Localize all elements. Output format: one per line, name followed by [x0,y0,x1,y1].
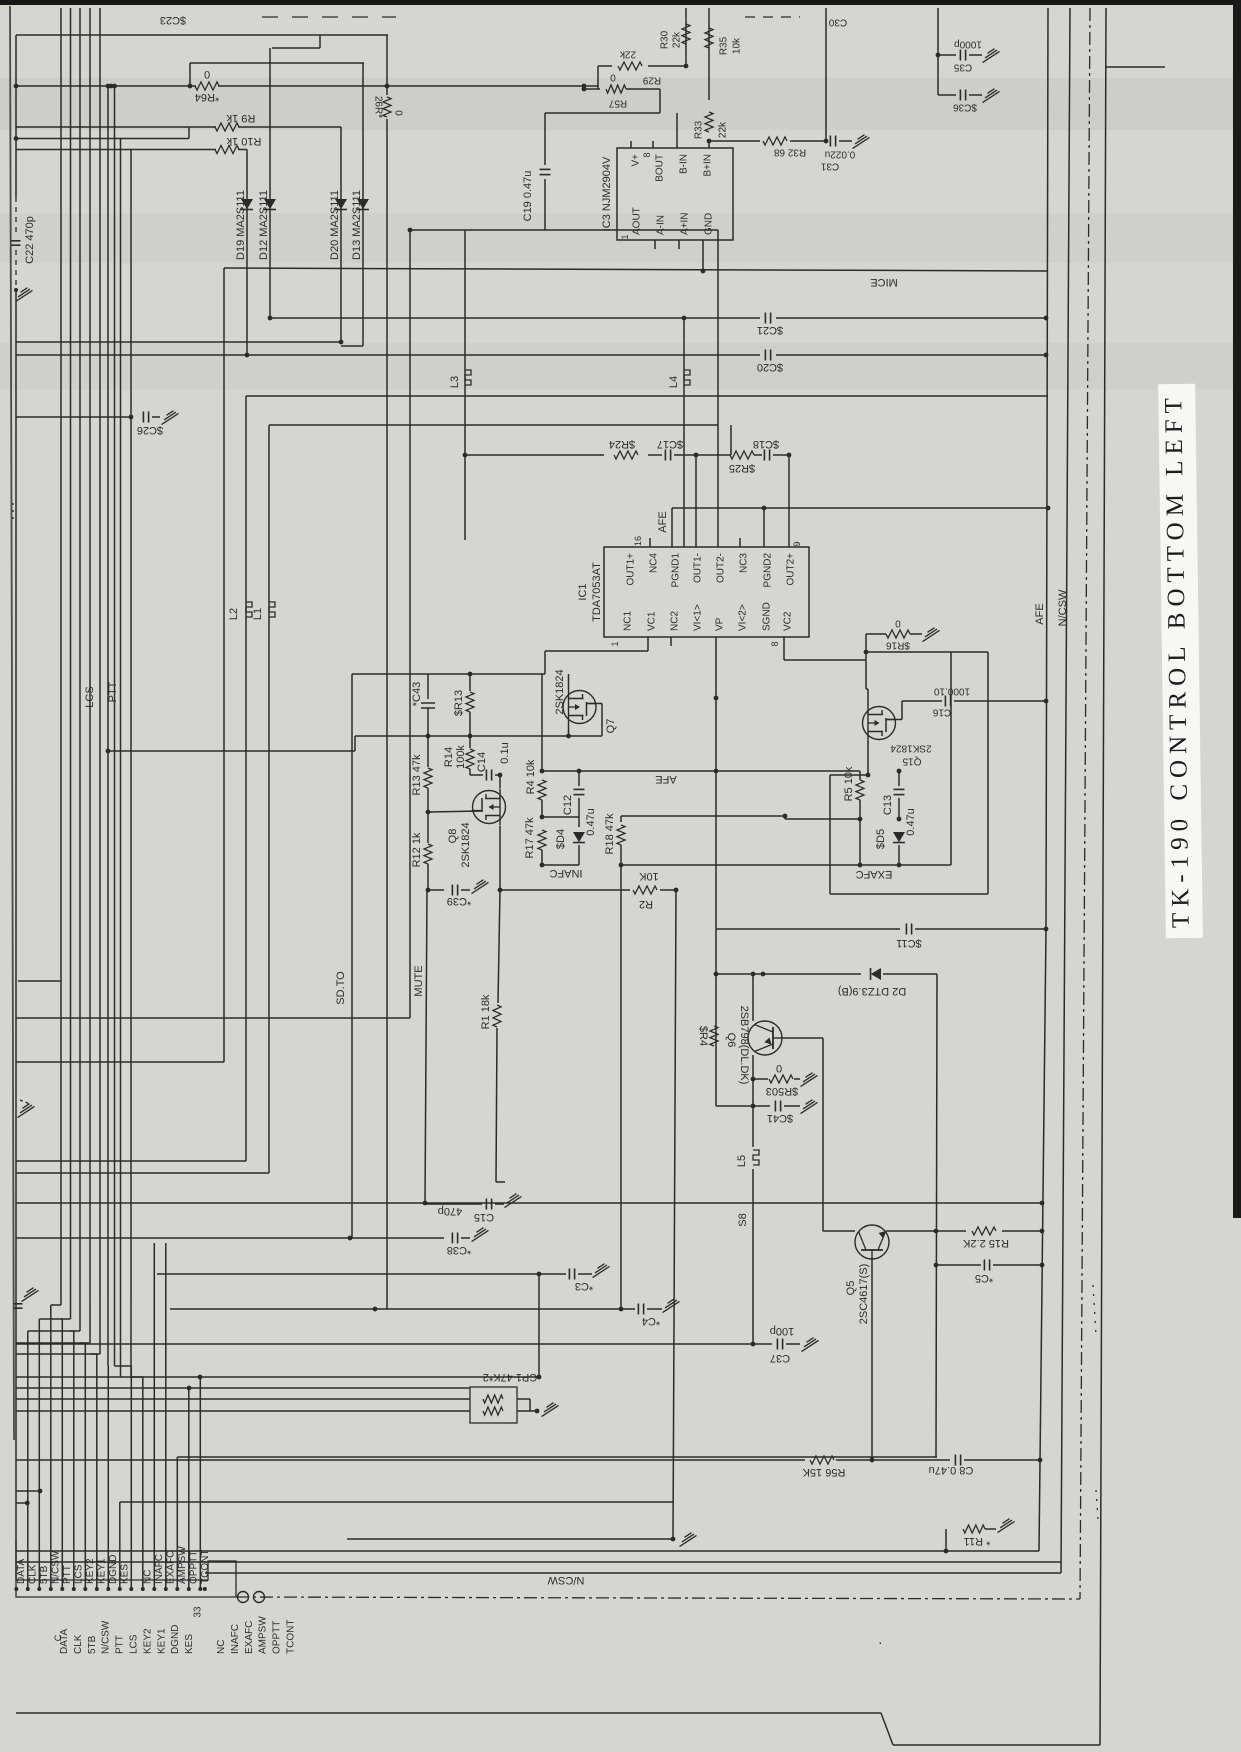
resistor R12 [411,832,432,867]
wire jog [51,1304,61,1306]
wire bus [99,8,101,1300]
node [582,87,587,92]
wire [108,750,355,752]
svg-text:DGND: DGND [170,1625,181,1654]
ground [983,89,1000,103]
transistor Q8 2SK1824 [472,789,506,826]
wire jog [79,1300,81,1331]
resistor R503 [766,1062,798,1097]
wire jog [107,1300,109,1366]
wire [16,1387,470,1389]
wire [659,89,661,113]
wire [753,1105,770,1107]
resistor R57 [606,72,627,109]
svg-text:$C20: $C20 [757,361,783,373]
wire riser DGND [107,1366,109,1589]
pin VC1 [647,611,658,631]
pin NC1 [623,611,634,631]
wire [716,973,861,975]
label legend TCONT [286,1620,297,1654]
svg-text:0.022u: 0.022u [825,149,856,160]
pin stub [708,141,710,148]
node [934,1229,939,1234]
wire jog [130,1300,132,1377]
wire jog [131,1376,143,1378]
wire [469,712,471,736]
wire [544,179,546,230]
wire [499,775,501,788]
node [385,84,390,89]
wire [579,770,860,772]
wire [987,652,989,894]
transistor Q6 2SB798 [748,1021,783,1055]
svg-text:5TB: 5TB [87,1635,98,1654]
wire [620,845,622,865]
svg-text:L2: L2 [228,608,240,620]
svg-text:9: 9 [792,541,802,546]
wire [246,150,248,356]
svg-text:R29: R29 [642,75,661,86]
pin LCS [72,1587,76,1591]
black scan edge right [1233,0,1241,1218]
wire [786,1343,800,1345]
node [1040,1263,1045,1268]
capacitor C37 [770,1325,794,1364]
wire [224,268,1048,271]
svg-text:R33: R33 [694,120,705,139]
wire [985,1528,996,1530]
wire [671,508,673,547]
svg-text:1: 1 [620,234,630,239]
svg-text:CLK: CLK [27,1564,38,1584]
pin V+ [631,154,642,167]
wire [883,973,937,975]
svg-text:MICE: MICE [870,276,898,288]
svg-text:R57: R57 [608,98,627,109]
wire [1039,929,1046,1551]
svg-text:SGND: SGND [762,602,773,631]
svg-text:8: 8 [770,641,780,646]
node [674,888,679,893]
svg-text:IC3 NJM2904V: IC3 NJM2904V [601,156,613,231]
node [1044,927,1049,932]
pin DGND [106,1587,110,1591]
wire [915,928,1046,930]
svg-text:2SC4617(S): 2SC4617(S) [858,1264,870,1325]
label DGND [108,1555,119,1584]
pin 9 [792,541,802,546]
wire [16,126,216,128]
label legend DGND [170,1625,181,1654]
wire [569,735,603,737]
svg-text:C15: C15 [474,1211,494,1223]
ground [853,135,870,149]
node [707,139,712,144]
svg-text:OUT1-: OUT1- [693,553,704,583]
wire [866,688,868,690]
wire [660,889,676,891]
scanner band [0,78,1241,130]
svg-text:$D5: $D5 [875,829,887,849]
wire [246,395,1048,397]
svg-text:MUTE: MUTE [413,965,425,996]
svg-text:$R4: $R4 [697,1026,709,1046]
ground [593,1264,610,1278]
svg-text:KEY2: KEY2 [142,1628,153,1654]
svg-text:100k: 100k [455,745,467,769]
resistor R33 [694,112,729,139]
svg-text:DGND: DGND [108,1555,119,1584]
label KES [119,1564,130,1584]
svg-text:1000p: 1000p [954,39,982,50]
wire [425,890,427,1203]
wire [496,1028,497,1182]
wire [783,1037,823,1039]
svg-text:$C26: $C26 [137,424,163,436]
wire riser AMPSW [176,1457,178,1589]
pin 5TB [37,1587,41,1591]
ground [923,628,940,642]
svg-text:R56 15K: R56 15K [802,1466,845,1478]
wire [715,637,717,1106]
node [671,1537,676,1542]
label legend DATA [59,1628,70,1654]
capacitor C36 [953,90,977,113]
node [14,136,19,141]
node [198,1375,203,1380]
wire [752,974,754,1021]
pin VI<1> [693,604,704,631]
black scan edge top [0,0,1241,5]
inductor L3 [449,370,471,388]
resistor R4 [525,759,546,800]
node [582,84,587,89]
wire [859,771,861,780]
svg-text:C35: C35 [953,62,972,73]
label legend INAFC [230,1624,241,1654]
svg-text:5TB: 5TB [39,1565,50,1584]
label TCONT [200,1550,211,1584]
node [714,696,719,701]
wire [469,736,471,748]
svg-text:V+: V+ [631,154,642,167]
node [537,1375,542,1380]
svg-text:0: 0 [895,618,901,629]
wire riser OPPTT [188,1388,190,1589]
pin 16 [633,536,643,546]
wire [268,425,270,1173]
svg-text:L5: L5 [736,1155,748,1167]
svg-text:KES: KES [184,1634,195,1654]
node [787,453,792,458]
svg-text:Q8: Q8 [447,829,459,844]
wire [428,811,482,812]
resistor R25 [729,451,755,474]
node [714,769,719,774]
svg-text:R17 47k: R17 47k [524,817,536,858]
wire [427,736,429,767]
node [751,1342,756,1347]
svg-text:2SK1824: 2SK1824 [460,822,472,867]
wire riser TCONT [199,1377,201,1589]
node [751,1104,756,1109]
capacitor C3 [569,1269,593,1293]
pin PGND1 [671,553,682,588]
wire [386,35,388,95]
wire [16,1459,805,1461]
ground [542,1403,559,1417]
svg-text:$R13: $R13 [453,690,465,716]
wire [839,140,852,142]
svg-text:B-IN: B-IN [679,154,690,174]
svg-text:C8 0.47u: C8 0.47u [929,1464,974,1476]
wire [673,890,676,1539]
inductor L1 [252,602,275,620]
wire [648,454,662,456]
wire [937,8,939,95]
node [468,672,473,677]
svg-text:KEY2: KEY2 [85,1558,96,1584]
wire [542,864,579,866]
node [824,139,829,144]
wire [822,1038,824,1232]
inductor L4 [668,370,690,388]
node [106,749,111,754]
pin KEY1 [95,1587,99,1591]
svg-text:R32 68: R32 68 [773,147,806,158]
svg-text:0.47u: 0.47u [585,808,597,836]
ground [801,1100,818,1114]
node [870,1458,875,1463]
wire [647,1308,662,1310]
svg-text:1000.10: 1000.10 [933,686,970,697]
svg-text:33: 33 [193,1606,204,1618]
wire [157,1273,566,1275]
pin CLK [26,1587,30,1591]
pin DATA [14,1587,18,1591]
capacitor C15 [438,1199,494,1224]
capacitor C12 [562,789,597,835]
wire [716,1105,753,1107]
wire riser N/CSW [50,1305,52,1589]
label legend NC [216,1640,227,1654]
wire [189,63,191,86]
label N/CSW right [1057,589,1069,626]
node [934,1263,939,1268]
wire [683,318,685,547]
wire jog [90,1353,97,1355]
label DATA [16,1558,27,1584]
node [468,734,473,739]
resistor R11 [963,1525,990,1547]
wire [16,354,247,356]
pin NC3 [739,553,750,573]
wire [788,455,790,547]
svg-text:EXAFC: EXAFC [244,1621,255,1654]
svg-text:R5 10k: R5 10k [843,766,855,801]
wire [717,230,719,547]
capacitor C38 [447,1233,471,1257]
svg-text:Q7: Q7 [605,719,617,734]
wire [730,425,732,455]
pin NC2 [670,611,681,631]
wire jog [16,1342,90,1344]
wire riser EXAFC [165,1243,167,1589]
wire [386,119,388,1309]
pin A+IN [680,212,691,235]
diode D13 MA2S111 [351,190,369,260]
ground [802,1338,819,1352]
wire [177,1456,937,1458]
svg-text:N/CSW: N/CSW [101,1620,112,1654]
wire [495,774,500,776]
wire [823,1230,855,1232]
node [866,773,871,778]
label legend KEY1 [156,1628,167,1654]
wire jog [28,1330,80,1332]
svg-text:OUT2+: OUT2+ [786,553,797,586]
label R35 10k [719,36,743,55]
wire [716,928,900,930]
pin NC4 [649,553,660,573]
wire [205,1572,1061,1574]
wire riser KES [119,1502,121,1589]
wire bus [107,86,109,1300]
svg-text:16: 16 [633,536,643,546]
pin stub [654,240,656,249]
svg-text:AMPSW: AMPSW [258,1616,269,1654]
wire [900,864,951,866]
svg-text:* R11: * R11 [964,1535,991,1547]
wire [16,149,216,151]
svg-text:D19 MA2S111: D19 MA2S111 [235,190,247,260]
resistor R2 [633,870,659,910]
pin VC2 [783,611,794,631]
svg-text:100p: 100p [770,1325,794,1337]
wire [898,798,900,819]
pin stub [676,113,678,148]
wire [578,798,580,827]
wire [347,1538,673,1540]
label AMPSW [177,1546,188,1584]
connector body [16,1539,236,1597]
svg-text:0: 0 [776,1062,782,1074]
diode D2 zener [838,968,906,997]
capacitor C4 [638,1304,660,1328]
svg-text:PTT: PTT [107,681,119,702]
node [619,1307,624,1312]
capacitor C31 [820,136,855,172]
svg-text:N/CSW: N/CSW [547,1574,584,1586]
wire [685,56,687,66]
svg-text:EXAFC: EXAFC [856,868,893,880]
wire [16,1202,1042,1204]
node [1044,316,1049,321]
wire [427,788,429,812]
pin KES [118,1587,122,1591]
capacitor C19 [540,169,551,174]
wire [964,1459,1040,1461]
svg-text:0: 0 [204,68,210,80]
label Q15 2SK1824 [890,743,932,767]
wire riser CLK [27,1331,29,1589]
pin 1 [620,234,630,239]
wire [341,345,363,347]
label AFE [657,511,669,532]
wire [674,454,731,456]
label EXAFC [856,868,893,880]
wire [825,8,827,141]
wire [538,1274,540,1377]
wire [16,1237,350,1239]
wire [945,1529,947,1551]
pin stub NC2 [670,637,672,646]
svg-text:2SK1824: 2SK1824 [890,743,932,754]
wire [425,1203,482,1205]
wire [753,1078,768,1080]
wire [16,1712,881,1714]
label 33 [193,1606,204,1618]
wire riser LCS [73,1331,75,1589]
label legend LCS [129,1634,140,1654]
svg-text:EXAFC: EXAFC [165,1551,176,1584]
wire [785,818,860,820]
diode D4 [555,829,585,849]
node [751,972,756,977]
wire [672,507,1048,509]
label Q5 2SC4617(S) [845,1264,870,1325]
wire bus right [1061,8,1070,1573]
pin PGND2 [763,553,774,588]
wire jog [16,1353,100,1355]
wire [16,341,341,343]
svg-text:BOUT: BOUT [655,154,666,182]
svg-text:SD.TO: SD.TO [335,971,347,1005]
svg-text:$C36: $C36 [953,102,977,113]
wire riser INAFC [153,1243,155,1589]
wire [16,1160,246,1162]
wire [865,634,867,652]
wire [428,889,444,891]
capacitor C18 [753,438,779,461]
wire [902,700,942,702]
label legend KES [184,1634,195,1654]
label legend KEY2 [142,1628,153,1654]
svg-text:OUT1+: OUT1+ [626,553,637,586]
wire bus [70,8,72,1300]
node [936,53,941,58]
diode D12 MA2S111 [258,190,276,260]
pin nc [203,1587,207,1591]
transistor Q7 2SK1824 [563,689,597,726]
svg-text:C30: C30 [828,17,847,28]
label Q7 2SK1824 [554,669,617,733]
wire jog [99,1300,101,1354]
svg-text:D20 MA2S111: D20 MA2S111 [329,190,341,260]
wire [238,149,247,151]
resistor R29 [618,49,661,86]
wire [830,774,868,776]
amp IC1 TDA7053AT box [604,547,809,637]
node [762,506,767,511]
wire [120,1501,673,1503]
svg-text:KEY1: KEY1 [96,1558,107,1584]
svg-text:C13: C13 [882,795,894,815]
wire [16,1061,224,1063]
capacitor C22 dashed segment [15,197,17,236]
svg-text:Q5: Q5 [845,1281,857,1296]
wire jog [120,1300,122,1377]
